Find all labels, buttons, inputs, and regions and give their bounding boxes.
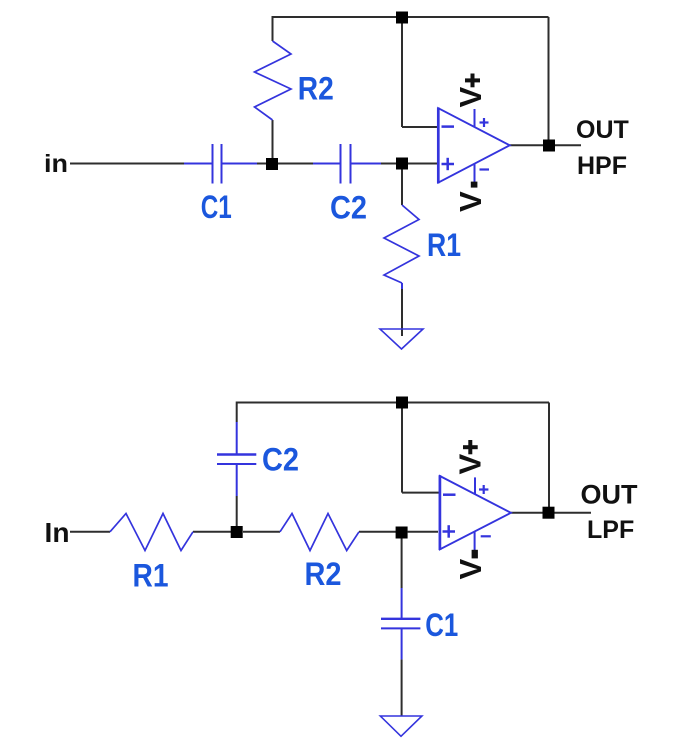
svg-text:C2: C2 (262, 441, 299, 477)
svg-text:R2: R2 (298, 71, 334, 107)
svg-text:V: V (453, 191, 488, 212)
svg-text:C1: C1 (425, 607, 458, 643)
svg-text:HPF: HPF (577, 152, 627, 180)
svg-text:in: in (44, 150, 68, 178)
svg-text:R1: R1 (133, 558, 169, 594)
svg-text:V: V (453, 559, 488, 580)
svg-text:R2: R2 (305, 556, 342, 592)
svg-text:C1: C1 (201, 189, 232, 225)
svg-text:C2: C2 (330, 190, 367, 226)
svg-text:In: In (45, 517, 70, 548)
svg-text:V: V (453, 454, 488, 475)
svg-text:V: V (453, 87, 488, 108)
svg-text:R1: R1 (427, 227, 461, 263)
svg-text:OUT: OUT (576, 116, 629, 144)
svg-text:OUT: OUT (581, 480, 639, 510)
svg-text:LPF: LPF (587, 516, 634, 544)
